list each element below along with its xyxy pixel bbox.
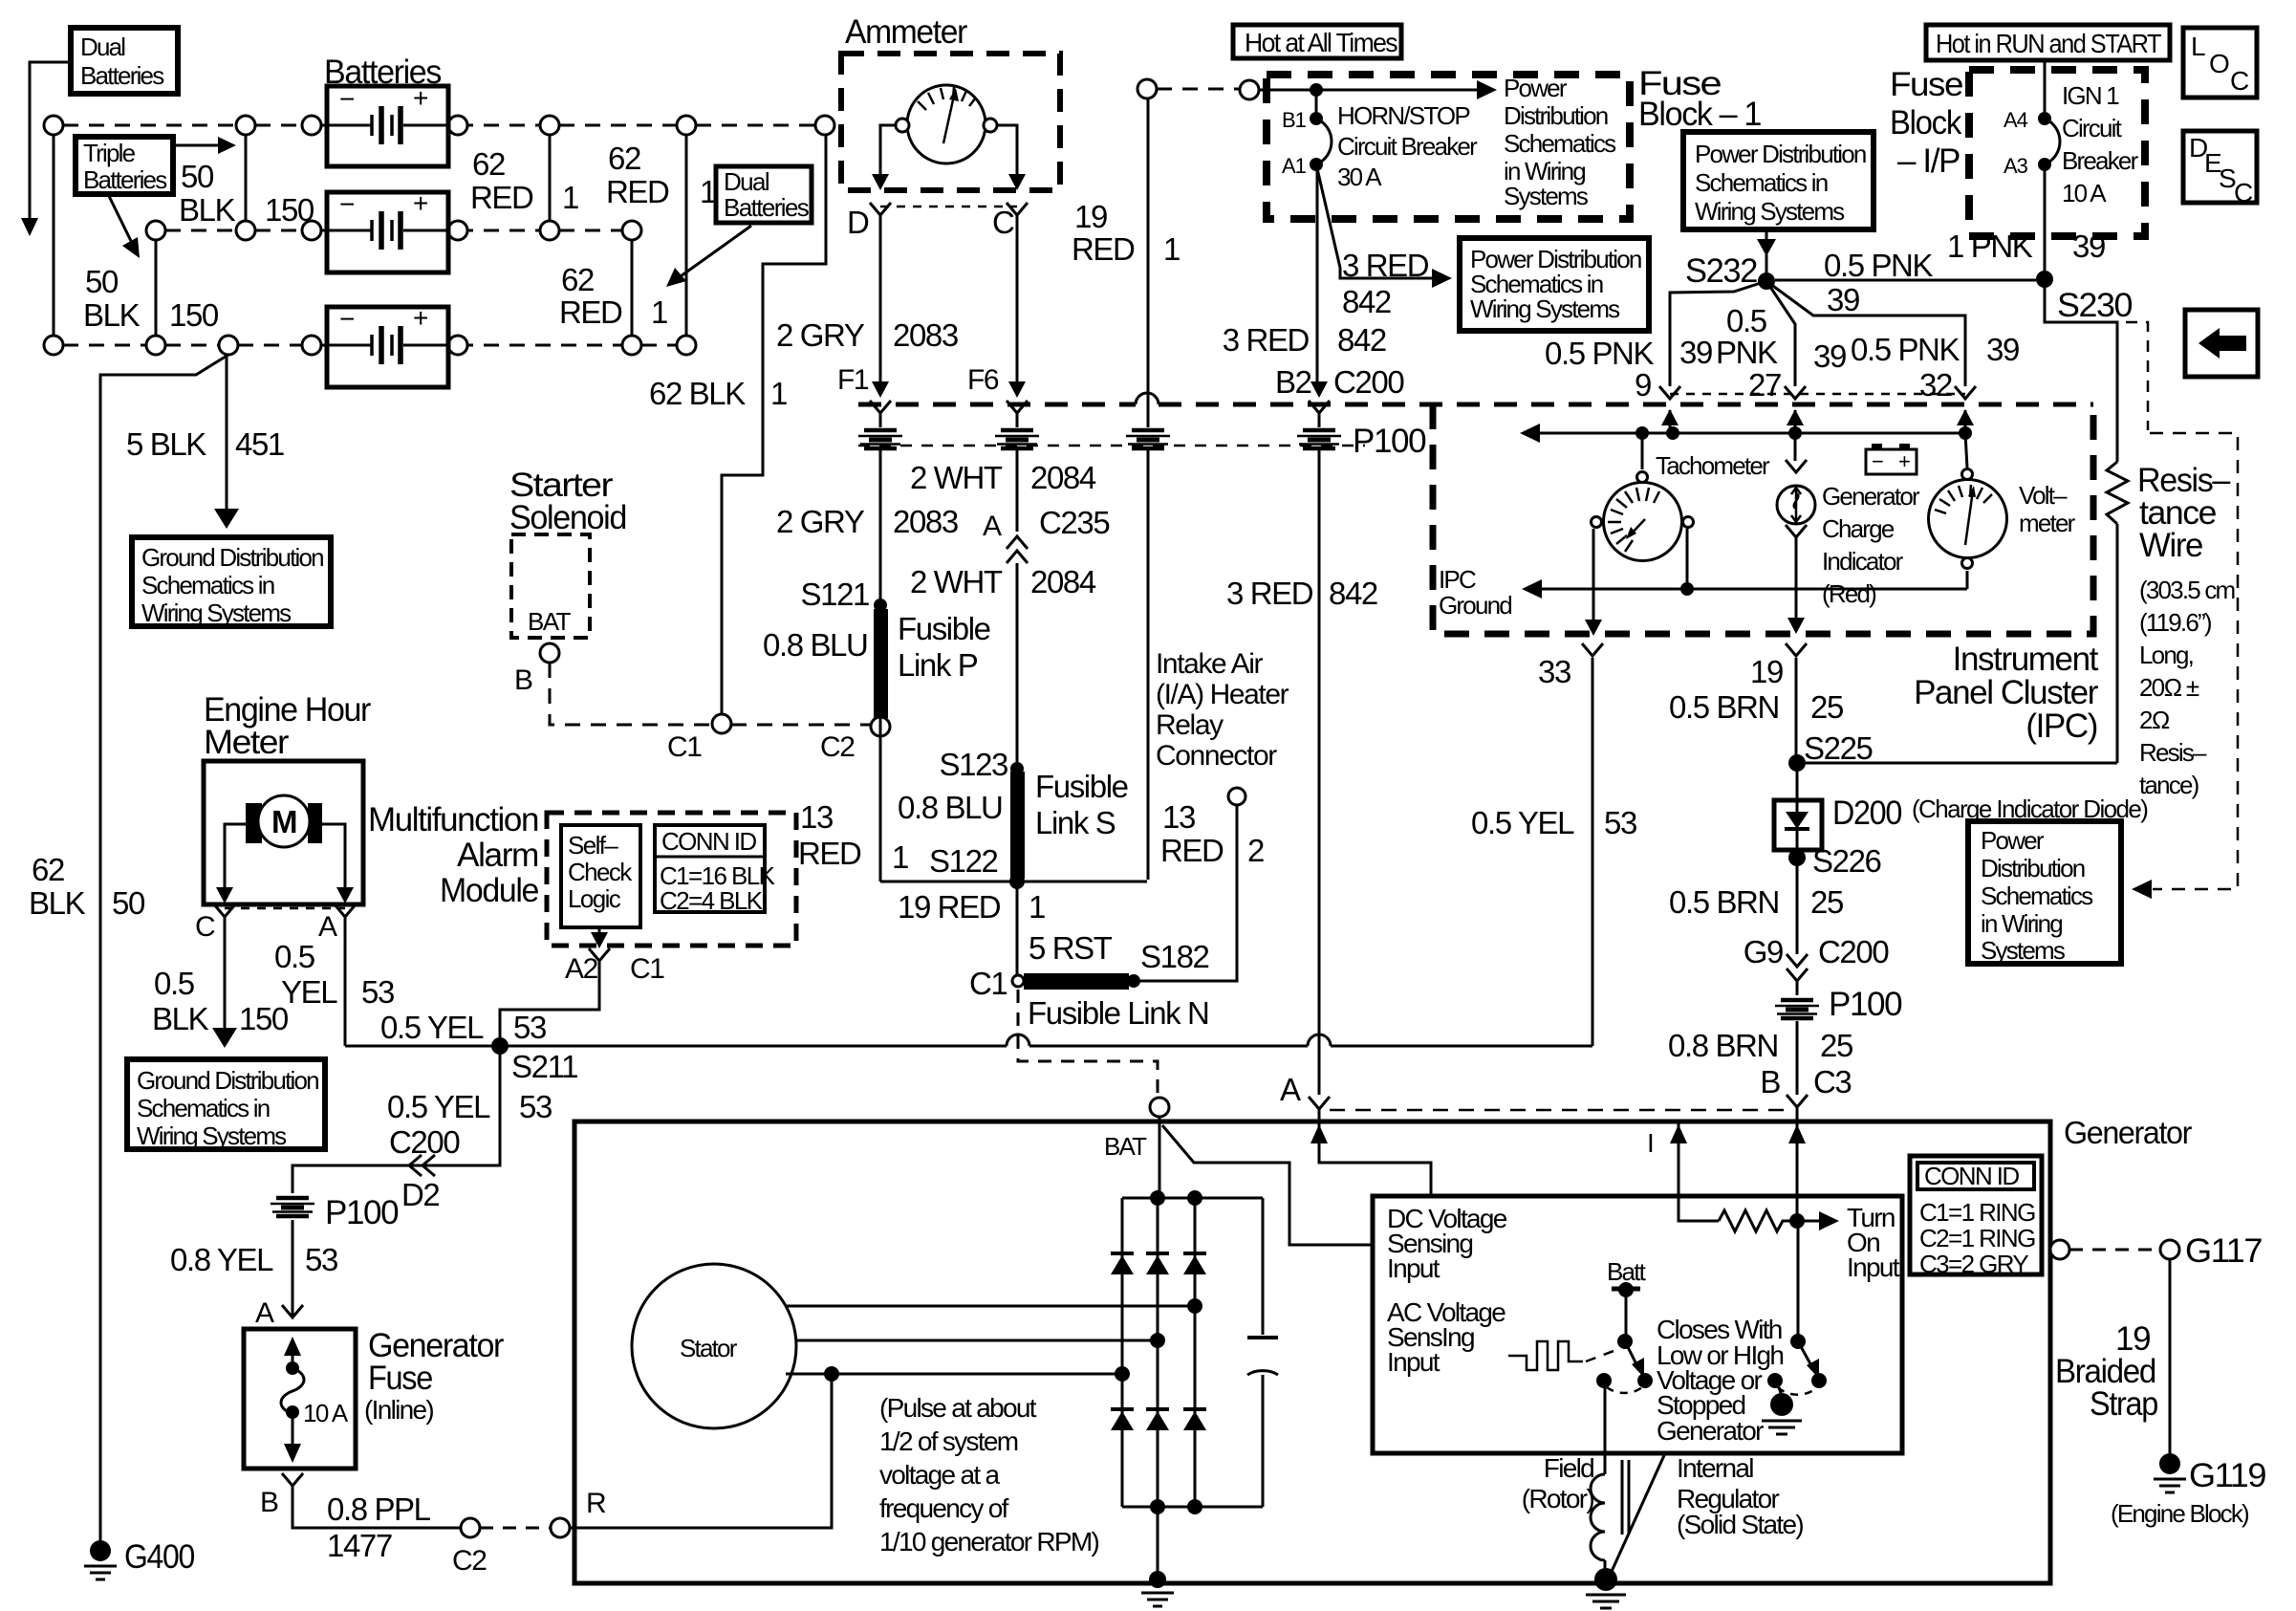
wire dashed to G117 [2069,1249,2160,1252]
svg-text:G9: G9 [1744,934,1783,969]
node pin A chevron (EHM) [335,904,356,917]
node S232 [1758,272,1775,290]
svg-text:C: C [992,205,1014,240]
wire C2 to S122 [880,718,1147,882]
svg-text:Block: Block [1890,104,1962,142]
label Volt-meter [2019,481,2076,537]
node B2 arrow and chevron [1309,381,1330,413]
svg-text:Strap: Strap [2090,1385,2157,1423]
node A2/C1 chevron [589,948,610,961]
svg-text:Fusible Link N: Fusible Link N [1028,995,1209,1031]
node C2 connector [871,717,890,736]
label Hot at All Times [1233,25,1401,58]
svg-text:Batteries: Batteries [724,193,810,222]
svg-text:C235: C235 [1039,505,1109,540]
svg-text:50: 50 [85,264,119,299]
svg-text:Hot at All Times: Hot at All Times [1245,28,1397,57]
wire generator ground stud [1141,1507,1174,1606]
svg-text:−: − [339,304,354,334]
svg-text:D200: D200 [1832,795,1902,832]
label 0.5 39 PNK 27 [1679,303,1781,403]
svg-text:39: 39 [1986,332,2019,367]
svg-text:B2: B2 [1275,364,1311,400]
svg-text:O: O [2209,49,2229,78]
wire braided strap [2169,1259,2172,1455]
node fuse block feed terminal [1240,80,1259,99]
label 2 GRY 2083 (lower) [776,504,958,539]
svg-text:A: A [983,511,1002,542]
label 1 PNK 39 [1947,229,2105,264]
svg-text:M: M [271,804,298,839]
svg-text:(I/A) Heater: (I/A) Heater [1156,679,1289,710]
label Ground Distribution box (upper) [132,537,331,627]
svg-text:39: 39 [1827,282,1859,317]
svg-text:BLK: BLK [83,297,141,333]
label 3 RED 842 (B2 wire) [1223,322,1386,358]
svg-text:842: 842 [1329,576,1377,611]
svg-text:S182: S182 [1140,939,1209,974]
svg-text:Triple: Triple [83,139,136,167]
svg-text:Systems: Systems [1504,182,1589,210]
label 19 Braided Strap [2055,1320,2157,1423]
node F1 arrow and chevron [870,381,891,413]
node row1 terminals [44,116,834,135]
svg-text:Input: Input [1387,1347,1440,1377]
svg-text:G119: G119 [2189,1457,2265,1494]
switch (battery, left) [1596,1282,1653,1393]
label B C3 [1760,1064,1851,1099]
wire self-check logic to A2 arrow [591,927,608,948]
pulse waveform [1508,1341,1621,1370]
multifunction alarm module box (dashed) [547,813,796,946]
svg-text:−: − [339,84,354,114]
svg-text:C200: C200 [1333,364,1404,400]
svg-text:Circuit: Circuit [2062,114,2123,142]
svg-text:Module: Module [440,872,538,909]
svg-text:Fuse: Fuse [368,1360,432,1397]
svg-text:Dual: Dual [80,33,125,61]
label 0.8 YEL 53 [170,1242,337,1277]
svg-text:53: 53 [305,1242,337,1277]
svg-text:1: 1 [700,174,716,209]
svg-text:C: C [2234,178,2253,207]
ground G119 [2111,1453,2265,1528]
wire S232 to S230 (0.5 PNK 39) [1775,279,2036,282]
wire S211 down and left to P100 [292,1046,500,1193]
label CONN ID box (generator) [1910,1156,2042,1278]
svg-text:1: 1 [770,376,787,411]
svg-text:S211: S211 [511,1049,577,1084]
wire dashed C2 to R [480,1527,551,1530]
wire C235 to S123 [1016,563,1019,769]
capacitor branch [1247,1198,1278,1507]
svg-text:10 A: 10 A [2062,179,2107,207]
label Starter Solenoid title [509,467,626,536]
svg-text:Panel Cluster: Panel Cluster [1914,674,2099,711]
svg-text:−: − [339,189,354,219]
wire tach wire down to pin 33 [1592,658,1594,1046]
svg-text:F6: F6 [967,364,999,396]
svg-text:CONN ID: CONN ID [1924,1162,2019,1190]
wire S225 to D200 [1796,763,1799,800]
svg-text:Fuse: Fuse [1890,66,1962,103]
node S226 [1788,849,1806,866]
svg-text:2 GRY: 2 GRY [776,317,865,353]
label 62 BLK 50 [29,852,145,921]
bottom diodes [1111,1407,1206,1411]
wire field to ground [1586,1560,1626,1608]
wire link row1-row3 left [53,135,55,336]
label CONN ID box (alarm module) [655,825,776,915]
svg-text:Self–: Self– [568,831,618,860]
svg-text:Multifunction: Multifunction [368,801,538,838]
label 13 RED (left) [798,799,861,871]
wire ammeter C lead [997,125,1026,190]
wire arrow to power distribution (inside fuse block) [1316,80,1497,99]
IPC box (dashed) [1433,404,2093,634]
svg-text:33: 33 [1538,654,1570,689]
svg-text:13: 13 [800,799,833,835]
node B terminal [540,643,559,663]
label IGN 1 Circuit Breaker 10 A [2062,81,2139,207]
svg-text:Ammeter: Ammeter [845,13,968,51]
connector P100 grommet (G9 wire) [1775,1000,1819,1018]
wire I terminal with arrow [1670,1121,1719,1221]
wire S182 to intake air relay connector [1140,805,1237,981]
svg-text:2084: 2084 [1030,564,1096,599]
label 0.5 YEL 53 (EHM A wire) [274,939,394,1010]
svg-text:IPC: IPC [1439,565,1476,594]
wire EHM C internal lead [216,824,246,903]
svg-text:Hot in RUN and START: Hot in RUN and START [1936,29,2161,58]
starter solenoid box (dashed) [511,534,590,638]
svg-text:(Rotor): (Rotor) [1522,1484,1594,1513]
svg-text:20Ω ±: 20Ω ± [2139,673,2199,702]
svg-text:0.5 BRN: 0.5 BRN [1669,884,1779,920]
svg-text:C1: C1 [969,966,1007,1001]
wire field coil from switch pivot [1604,1388,1607,1474]
label Internal Regulator (Solid State) [1677,1453,1803,1539]
svg-text:RED: RED [470,180,533,215]
svg-text:842: 842 [1337,322,1386,358]
svg-text:Fusible: Fusible [1035,769,1128,804]
svg-text:0.8 BLU: 0.8 BLU [898,790,1002,825]
label Resis-tance Wire [2137,462,2231,564]
svg-text:YEL: YEL [281,974,337,1010]
svg-text:3 RED: 3 RED [1226,576,1313,611]
svg-text:– I/P: – I/P [1897,142,1960,180]
label Ground Distribution box (lower) [127,1059,325,1150]
svg-text:BLK: BLK [152,1001,209,1036]
svg-text:C3: C3 [1813,1064,1851,1099]
svg-text:53: 53 [513,1010,546,1045]
label DESC box [2183,131,2257,207]
svg-text:C1=1 RING: C1=1 RING [1919,1198,2035,1227]
fuse element (inline fuse) [281,1337,304,1463]
svg-text:Connector: Connector [1156,740,1277,772]
wire battery bus row 1 (dashed) [63,124,815,127]
label Power Distribution Schematics in Wiring Systems box (middle) [1460,238,1649,331]
wire link row2-row3 at x163 [155,240,158,336]
circuit breaker HORN/STOP 30A [1310,112,1332,171]
svg-text:5 BLK: 5 BLK [126,426,206,462]
node 19 RED top terminal [1137,79,1157,98]
connector D2 double chevron [409,1155,435,1176]
svg-text:13: 13 [1162,799,1195,835]
wire P100 dashed pass-through line [858,445,1365,447]
svg-text:25: 25 [1820,1028,1852,1063]
label IPC Ground [1439,565,1511,620]
svg-text:53: 53 [361,974,394,1010]
node S123 [1010,762,1024,775]
wire 5 BLK 451 ground lead [214,355,239,529]
svg-text:2: 2 [1247,833,1264,868]
svg-text:150: 150 [265,192,314,228]
svg-text:1/2 of system: 1/2 of system [879,1426,1018,1456]
svg-text:2 WHT: 2 WHT [910,564,1003,599]
generator fuse box [244,1329,356,1469]
svg-text:842: 842 [1342,284,1391,319]
svg-text:Input: Input [1847,1252,1900,1282]
label DC Voltage Sensing Input [1387,1204,1507,1283]
node pin 32 chevron and arrow [1955,386,1976,433]
ground G400 [84,1538,195,1579]
engine hour meter box [204,761,363,904]
svg-text:meter: meter [2019,509,2076,537]
svg-text:0.5 PNK: 0.5 PNK [1824,248,1933,283]
svg-text:Ground: Ground [1439,591,1511,620]
wire generator top dashed boundary [1330,1109,1786,1112]
svg-text:Solenoid: Solenoid [509,499,626,536]
wire battery bus row 2 (dashed) [165,229,622,232]
svg-text:Wiring Systems: Wiring Systems [1695,197,1845,226]
connector P100 grommet (F1 wire) [858,413,902,605]
label Fuse Block - I/P [1890,66,1962,180]
svg-text:62: 62 [472,146,505,182]
label 0.5 BRN 25 (lower) [1669,884,1843,920]
wire S232 to pin 9 [1670,281,1766,386]
svg-text:(IPC): (IPC) [2025,708,2097,745]
label Dual Batteries (small, right) [716,166,812,223]
svg-text:(Red): (Red) [1822,579,1876,608]
svg-text:Relay: Relay [1156,709,1224,741]
svg-text:I: I [1647,1128,1653,1158]
svg-text:IGN 1: IGN 1 [2062,81,2119,110]
wire turn on input arrow [1797,1211,1839,1230]
svg-text:0.8 PPL: 0.8 PPL [327,1491,431,1527]
node resistor to B junction [1789,1213,1805,1229]
svg-text:Long,: Long, [2139,641,2193,669]
svg-text:9: 9 [1635,367,1651,403]
node R terminal [551,1518,570,1537]
label Field (Rotor) [1522,1453,1594,1513]
wire G9 to P100 [1796,981,1799,995]
wire pin 19 to S225 [1795,658,1798,755]
wire 62 BLK 1 battery to starter solenoid C1 [722,135,826,714]
field coil (rotor) [1591,1460,1629,1560]
wire 0.8 PPL 1477 to C2 [292,1486,461,1528]
fusible link N [1024,973,1129,990]
svg-text:+: + [413,188,427,218]
label 50 BLK 150 (upper) [179,159,314,228]
label Fusible Link P [898,611,990,683]
wire S225 to resistance wire [1806,762,2117,765]
svg-text:Fusible: Fusible [898,611,990,646]
svg-text:Wiring Systems: Wiring Systems [137,1121,287,1150]
svg-text:2Ω: 2Ω [2139,706,2170,734]
svg-text:0.5: 0.5 [154,966,194,1001]
label Fusible Link S [1035,769,1128,840]
svg-text:19: 19 [1750,654,1783,689]
label (Pulse at about 1/2 of system voltage at a frequency of 1/10 generator RPM) [879,1393,1099,1557]
svg-text:Batt: Batt [1607,1257,1647,1286]
svg-text:RED: RED [798,836,861,871]
wire Dual Batteries small pointer arrow [666,226,751,287]
wire battery bus row 3 (dashed) [63,344,677,347]
node S230 [2036,271,2053,288]
label Multifunction Alarm Module title [368,801,538,909]
svg-text:Generator: Generator [2064,1115,2192,1150]
label Triple Batteries [76,137,173,194]
svg-text:D2: D2 [401,1177,439,1212]
svg-text:Ground Distribution: Ground Distribution [137,1066,318,1095]
svg-text:Power: Power [1981,826,2045,855]
wire IPC top rail with left arrow [1520,424,1972,443]
svg-text:A3: A3 [2004,154,2028,178]
node pin 9 chevron and arrow [1659,386,1680,433]
svg-text:Link P: Link P [898,647,978,683]
label 0.5 BLK 150 [152,966,289,1036]
wire EHM C to ground arrow [212,917,237,1048]
label Turn On Input [1847,1203,1900,1282]
label Instrument Panel Cluster (IPC) [1914,641,2099,745]
wire Triple Batteries arrow right [173,137,236,154]
svg-text:Intake Air: Intake Air [1156,648,1263,680]
wire dashed corner to resistance wire box [2126,322,2148,430]
svg-text:1 PNK: 1 PNK [1947,229,2033,264]
svg-text:0.5: 0.5 [274,939,314,974]
svg-text:Generator: Generator [1822,482,1920,511]
svg-text:Power Distribution: Power Distribution [1695,140,1866,168]
svg-text:25: 25 [1810,884,1843,920]
svg-text:frequency of: frequency of [879,1493,1009,1523]
node C1 starter solenoid [712,714,731,733]
label 62 BLK 1 [649,376,787,411]
svg-text:C2=1 RING: C2=1 RING [1919,1224,2035,1252]
svg-text:0.5 YEL: 0.5 YEL [1471,805,1574,840]
svg-text:Batteries: Batteries [80,61,164,90]
internal regulator box [1373,1196,1902,1453]
svg-text:0.8 BRN: 0.8 BRN [1668,1028,1778,1063]
svg-text:B1: B1 [1282,108,1307,132]
svg-text:10 A: 10 A [303,1399,349,1427]
svg-text:Schematics in: Schematics in [1695,168,1828,197]
label Dual Batteries (top left) [71,28,178,94]
svg-text:C3=2 GRY: C3=2 GRY [1919,1250,2028,1278]
svg-text:BLK: BLK [29,885,86,921]
svg-text:Wiring Systems: Wiring Systems [141,599,292,627]
svg-text:0.8 YEL: 0.8 YEL [170,1242,273,1277]
svg-text:19 RED: 19 RED [898,889,1001,925]
svg-text:S232: S232 [1685,252,1757,290]
fuse block I/P box (dashed) [1969,70,2145,236]
svg-text:RED: RED [1160,833,1224,868]
svg-text:1: 1 [1029,889,1045,925]
wire R into generator [570,1527,574,1530]
node row2 terminals [146,221,641,240]
svg-text:Distribution: Distribution [1981,854,2085,882]
wire P100 to B/C3 [1796,1021,1799,1095]
connector A / C235 double chevron [1007,536,1028,563]
label 2 WHT 2084 (lower) [910,564,1096,599]
label 62 RED 1 (first) [470,146,578,215]
battery B3 (bottom) [327,303,448,387]
svg-text:2083: 2083 [893,317,958,353]
svg-text:HORN/STOP: HORN/STOP [1337,101,1469,130]
svg-text:CONN ID: CONN ID [661,827,756,856]
svg-text:1: 1 [892,839,908,875]
svg-text:Power: Power [1504,74,1568,102]
wire 2 GRY 2083 / D wire down to F1 [879,215,882,382]
label 2 GRY 2083 (upper) [776,317,958,353]
svg-text:BLK: BLK [179,192,236,228]
svg-text:Field: Field [1544,1453,1593,1483]
svg-text:Schematics in: Schematics in [137,1094,270,1122]
wire fuse panel boundary dashed line [858,403,2093,407]
node C2 terminal (generator R) [461,1518,480,1537]
tachometer [1585,433,1694,636]
svg-text:A2: A2 [565,953,598,985]
svg-text:Input: Input [1387,1253,1440,1283]
label Fuse Block - 1 [1638,65,1761,133]
svg-text:B: B [514,664,532,696]
node pin C chevron (EHM) [214,904,235,917]
wire alarm C1 down to S211 [500,961,599,1046]
svg-text:Distribution: Distribution [1504,101,1608,130]
wire BAT to DC sensing (diagonal) [1162,1125,1373,1245]
svg-text:1: 1 [562,180,578,215]
svg-text:Logic: Logic [568,884,621,913]
svg-text:(Pulse at about: (Pulse at about [879,1393,1037,1423]
svg-text:50: 50 [181,159,214,194]
svg-text:1: 1 [1163,231,1180,267]
svg-text:C1: C1 [667,731,702,763]
label 62 RED 1 (third) [559,262,667,330]
svg-text:Block – 1: Block – 1 [1638,96,1761,133]
svg-text:S226: S226 [1812,843,1881,879]
svg-text:S225: S225 [1804,730,1873,766]
node pin D chevron [870,203,891,215]
svg-text:+: + [413,303,427,333]
svg-text:1: 1 [651,294,667,330]
connector IPC pins dashed line [1670,393,1965,396]
wire dashed arrow into power distribution box (right) [2132,880,2152,899]
wire stator phase 1 [787,1305,1195,1308]
wire A1 to 3 RED arrow [1316,164,1452,288]
svg-text:53: 53 [519,1089,552,1124]
top diodes [1111,1252,1206,1255]
svg-text:62: 62 [32,852,64,887]
svg-text:RED: RED [559,294,622,330]
label 0.5 YEL 53 (at S211 top) [380,1010,546,1045]
svg-text:2 GRY: 2 GRY [776,504,865,539]
svg-text:Schematics in: Schematics in [141,571,274,599]
ammeter box (dashed) [841,54,1060,190]
connector P100 grommet (generator fuse wire) [271,1198,314,1216]
label 19 RED 1 (below S122) [898,889,1045,925]
label 13 RED 2 [1160,799,1264,868]
svg-text:L: L [2191,32,2205,61]
